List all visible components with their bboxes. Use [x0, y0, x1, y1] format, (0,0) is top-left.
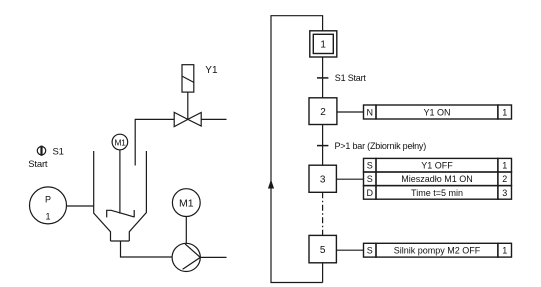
wire valve right pipe [201, 118, 226, 120]
svg-text:2: 2 [502, 174, 507, 184]
wire dash-dot step3 to step5 [322, 192, 324, 235]
svg-text:Time t=5 min: Time t=5 min [411, 188, 463, 198]
arrow up on loop [268, 180, 274, 189]
svg-text:3: 3 [320, 174, 326, 185]
svg-text:D: D [366, 188, 373, 198]
step 2 [309, 98, 337, 125]
svg-text:Y1 OFF: Y1 OFF [421, 161, 453, 171]
wire step2 to step3 [322, 125, 324, 166]
wire step5 to action [336, 249, 363, 251]
svg-text:S: S [367, 161, 373, 171]
svg-text:1: 1 [45, 212, 50, 222]
step 3 [309, 165, 336, 192]
solenoid actuator Y1 [182, 65, 194, 92]
mixer motor M1 [112, 134, 128, 150]
tank [94, 151, 147, 241]
svg-text:2: 2 [320, 107, 326, 118]
wire SFC return loop [271, 16, 323, 283]
transition tick S1 Start [317, 77, 328, 79]
svg-text:P: P [45, 194, 51, 204]
svg-text:1: 1 [502, 246, 507, 256]
wire step3 to actions [336, 178, 363, 180]
svg-text:1: 1 [502, 107, 507, 117]
svg-text:Y1 ON: Y1 ON [423, 107, 450, 117]
svg-text:M1: M1 [179, 197, 194, 209]
wire mixer shaft [119, 150, 121, 214]
svg-text:S1 Start: S1 Start [335, 73, 367, 83]
valve Y1 [174, 112, 201, 126]
wire tank outlet [121, 241, 173, 257]
wire valve left pipe into tank [135, 119, 174, 165]
step 5 [309, 235, 336, 262]
svg-text:S: S [367, 174, 373, 184]
svg-text:N: N [366, 107, 373, 117]
mixer paddle [107, 210, 135, 217]
wire step2 to action [337, 111, 364, 113]
pressure gauge P1 [30, 187, 67, 224]
svg-text:Y1: Y1 [205, 65, 218, 76]
svg-text:Silnik pompy M2 OFF: Silnik pompy M2 OFF [394, 246, 481, 256]
wire step5 down to loop [322, 263, 324, 283]
action row N Y1 ON 1 [364, 105, 512, 119]
svg-text:P>1 bar (Zbiornik pełny): P>1 bar (Zbiornik pełny) [335, 141, 427, 151]
svg-text:Mieszadło M1 ON: Mieszadło M1 ON [401, 174, 473, 184]
pump [172, 243, 200, 271]
pump motor M1 [172, 189, 200, 217]
pushbutton S1 symbol [37, 146, 45, 156]
svg-text:Start: Start [28, 159, 48, 170]
wire actuator stem [187, 92, 189, 119]
wire step1 to step2 [322, 57, 324, 98]
wire motor to pump [185, 217, 187, 244]
initial step 1 [310, 31, 337, 57]
svg-text:M1: M1 [114, 137, 126, 147]
svg-text:S: S [367, 246, 373, 256]
svg-text:3: 3 [502, 188, 507, 198]
transition tick P>1 bar [317, 145, 328, 147]
svg-text:5: 5 [320, 245, 326, 256]
action row S Silnik pompy M2 OFF 1 [364, 243, 512, 257]
svg-text:1: 1 [502, 161, 507, 171]
svg-text:1: 1 [320, 40, 326, 51]
action table step3 [364, 158, 512, 199]
wire pump outlet [200, 256, 226, 258]
wire gauge to tank [67, 205, 94, 207]
svg-text:S1: S1 [53, 147, 64, 158]
